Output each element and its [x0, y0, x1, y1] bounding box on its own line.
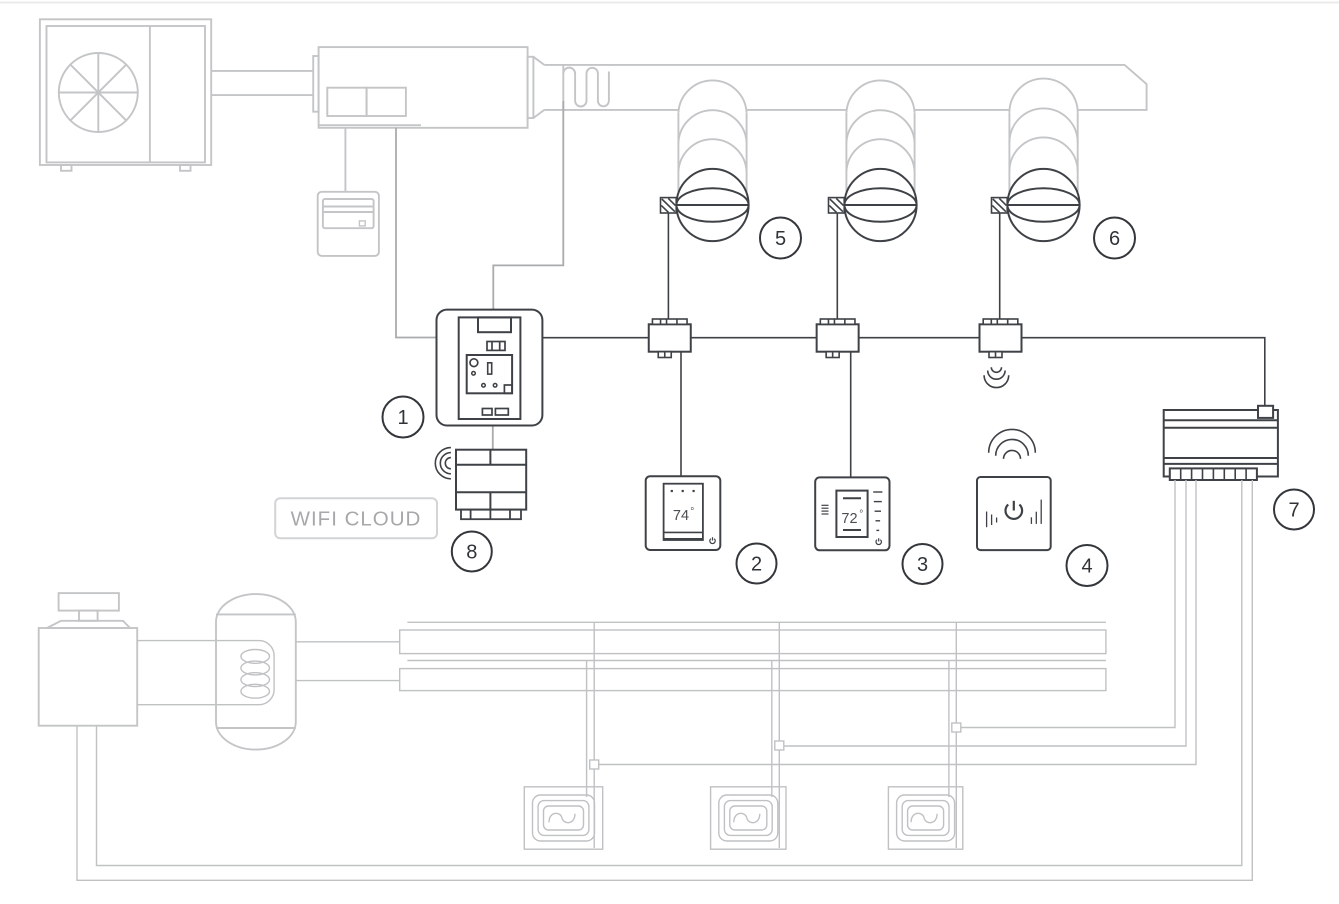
svg-text:3: 3 — [917, 554, 928, 576]
thermostat 3 menu lines — [822, 505, 829, 514]
primary pipe loop boiler to tank — [137, 641, 274, 705]
wire damper actuator 1 to relay module — [667, 213, 669, 320]
wire relay module 1 to thermostat 2 — [680, 352, 682, 476]
refrigerant line set heat pump to air handler — [211, 71, 313, 95]
flexible duct connector — [563, 65, 609, 110]
svg-text:72: 72 — [841, 511, 857, 527]
buffer tank — [216, 594, 296, 750]
svg-text:8: 8 — [466, 542, 477, 564]
svg-text:°: ° — [690, 507, 694, 518]
manifold middle pipe line — [407, 660, 1106, 662]
damper relay module 3 — [980, 319, 1022, 358]
air handler unit — [313, 47, 544, 128]
loop actuator connector 2 — [775, 741, 784, 750]
supply pipe tank to manifold — [296, 641, 400, 643]
thermostat 3 scale dashes — [873, 492, 882, 530]
wireless signal from relay module 3 — [984, 367, 1009, 387]
label circle 6 — [1094, 218, 1135, 259]
main supply duct trunk — [544, 65, 1146, 110]
wireless signal above module 4 — [989, 429, 1036, 458]
svg-text:7: 7 — [1288, 500, 1299, 522]
boiler unit — [39, 593, 138, 726]
floor heating loop 1 — [524, 787, 602, 849]
branch duct 2 — [846, 80, 914, 192]
damper relay module 2 — [817, 319, 859, 358]
label circle 1 — [383, 397, 424, 438]
wire air handler to controller 1 — [396, 128, 437, 338]
damper actuator 3 — [992, 198, 1008, 213]
thermostat 2 (74 deg) — [646, 476, 721, 550]
floor heating loop 3 — [888, 787, 962, 849]
zone damper 3 — [1007, 169, 1079, 241]
loop actuator connector 1 — [590, 760, 599, 769]
wire duct sensor to controller 1 — [493, 101, 563, 310]
page top border line — [0, 2, 1339, 4]
wire module 7 to boiler (outer) — [77, 480, 1252, 880]
floor loop riser pipes 3 — [949, 622, 956, 848]
power button icon module 4 — [1006, 501, 1023, 519]
label circle 4 — [1067, 545, 1108, 586]
wire damper actuator 2 to relay module — [836, 213, 838, 320]
branch duct 1 — [678, 80, 746, 192]
wifi relay module 8 — [456, 450, 526, 520]
control bus wire — [542, 338, 1264, 406]
svg-text:WIFI CLOUD: WIFI CLOUD — [291, 508, 422, 531]
svg-text:5: 5 — [775, 228, 786, 250]
damper actuator 1 — [661, 198, 677, 213]
floor loop riser pipes 2 — [772, 622, 780, 848]
thermostat 2 power icon — [710, 537, 715, 543]
heat pump control device — [318, 192, 379, 256]
heat exchanger coil — [241, 650, 270, 699]
wire controller 1 to wifi relay 8 — [492, 426, 494, 450]
floor loop riser pipes 1 — [587, 622, 595, 848]
wifi cloud label box — [275, 498, 437, 538]
supply manifold bar — [400, 630, 1106, 654]
damper actuator 2 — [829, 198, 845, 213]
thermostat 3 (72 deg) — [815, 477, 889, 550]
label circle 2 — [737, 544, 777, 584]
wire module 7 to loop actuator 1 — [599, 480, 1196, 765]
label circle 7 — [1274, 490, 1314, 530]
label circle 3 — [903, 544, 943, 584]
branch duct 3 — [1009, 79, 1077, 192]
wire relay module 2 to thermostat 3 — [850, 352, 852, 477]
wire module 7 to loop actuator 3 — [961, 480, 1175, 728]
wiring centre module 7 — [1164, 406, 1278, 477]
wire damper actuator 3 to relay module — [999, 213, 1001, 320]
svg-text:74: 74 — [673, 508, 689, 524]
svg-text:4: 4 — [1081, 556, 1092, 578]
label circle 5 — [760, 218, 801, 259]
zone damper 2 — [844, 169, 916, 241]
floor heating loop 2 — [711, 787, 786, 849]
return pipe tank to manifold — [296, 680, 400, 682]
wire module 7 to loop actuator 2 — [784, 480, 1186, 746]
loop actuator connector 3 — [952, 723, 961, 732]
wireless power module 4 — [977, 477, 1051, 550]
svg-text:°: ° — [859, 509, 863, 520]
wireless signal of relay 8 — [435, 448, 451, 479]
controller module 1 — [437, 310, 543, 426]
svg-text:1: 1 — [397, 407, 408, 429]
signal bars module 4 — [987, 500, 1042, 528]
wire module 7 to boiler (inner) — [97, 480, 1242, 866]
thermostat 3 power icon — [876, 538, 881, 544]
svg-text:6: 6 — [1109, 228, 1120, 250]
wire air handler to outdoor controller — [344, 128, 346, 192]
return manifold bar — [400, 669, 1106, 691]
damper relay module 1 — [649, 319, 691, 358]
heat pump outdoor unit — [40, 19, 211, 171]
manifold top pipe line — [407, 621, 1106, 623]
svg-text:2: 2 — [751, 554, 762, 576]
terminal strip module 7 — [1170, 468, 1257, 480]
label circle 8 — [452, 532, 492, 572]
zone damper 1 — [676, 169, 748, 241]
